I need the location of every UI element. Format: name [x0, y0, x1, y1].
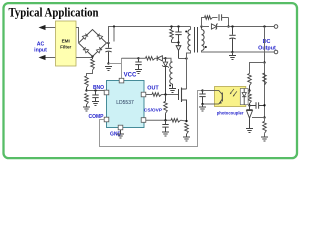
resistor R2 line sense middle — [85, 76, 89, 88]
node C1 bottom / VCC link — [107, 62, 109, 64]
node gate resistor junction — [164, 93, 166, 95]
wire emitter to box — [203, 103, 215, 105]
node primary phase dot — [185, 31, 187, 33]
svg-text:CS/OVP: CS/OVP — [144, 108, 163, 114]
bridge diode D1 (left-top edge) — [82, 34, 88, 40]
transistor U2 TL431 shunt regulator — [249, 106, 251, 110]
resistor R8 LED bias — [248, 74, 252, 86]
svg-text:VCC: VCC — [124, 73, 137, 79]
wire clamp bottom tie — [172, 42, 179, 44]
node TL431 ref junction — [263, 116, 265, 118]
ground below R3 — [83, 106, 90, 108]
resistor R12 OVP series — [165, 95, 167, 102]
zener D6 OVP — [165, 58, 167, 61]
node aux phase dot — [169, 85, 171, 87]
bridge diode D2 (top-right edge) — [97, 34, 103, 40]
photocoupler light arrows — [231, 89, 234, 93]
wire LED cathode to photocoupler — [248, 105, 249, 107]
node clamp C top — [177, 25, 179, 27]
resistor R13 CS series — [171, 119, 181, 123]
svg-text:OUT: OUT — [147, 86, 159, 92]
svg-text:photocoupler: photocoupler — [217, 110, 244, 115]
wire TL431 ref — [252, 117, 265, 119]
node bridge+ riser junction — [107, 42, 109, 44]
node CS filter tap — [164, 119, 166, 121]
wire LED anode to photocoupler — [248, 90, 249, 92]
wire BNO tap to IC pin — [87, 90, 105, 92]
node VCC charge cap tap — [137, 57, 139, 59]
svg-text:Typical Application: Typical Application — [9, 6, 99, 20]
diode D8 output rectifier — [202, 26, 210, 28]
wire output positive rail — [229, 26, 275, 28]
node emitter junction — [201, 103, 203, 105]
bridge rectifier BD1 diamond — [79, 30, 107, 57]
resistor R11 gate — [146, 94, 152, 96]
wire secondary top lead — [201, 27, 203, 30]
ground below photocoupler — [202, 104, 204, 107]
transformer core — [194, 27, 196, 53]
wire feedback column — [264, 27, 266, 118]
pin VCC (top) — [119, 78, 124, 83]
node feedback column top — [263, 25, 265, 27]
svg-text:BNO: BNO — [93, 85, 104, 91]
resistor R14 current sense — [185, 123, 189, 134]
node drain junction — [185, 57, 187, 59]
resistor R5 clamp — [171, 27, 173, 30]
wire EMI bottom output to bridge — [76, 57, 93, 59]
svg-text:Filter: Filter — [60, 45, 71, 50]
wire CS pin — [146, 119, 171, 121]
ground below TL431 — [246, 128, 253, 130]
node secondary snubber right — [227, 25, 229, 27]
ground below aux winding — [169, 88, 176, 90]
diode D5 VCC charge — [155, 57, 157, 59]
svg-text:Output: Output — [258, 46, 276, 52]
node comp cap right — [263, 104, 265, 106]
ground below C2 — [92, 101, 99, 103]
node source sense junction — [185, 120, 187, 122]
resistor R4 VCC charge — [146, 57, 156, 61]
node clamp diode top — [177, 41, 179, 43]
node clamp R top — [170, 25, 172, 27]
wire collector to box — [203, 90, 215, 92]
capacitor C3 VCC — [138, 58, 140, 61]
resistor R3 line sense lower — [85, 94, 89, 105]
node LED anode — [248, 89, 250, 91]
capacitor C5 snubber — [218, 14, 220, 20]
pin BNO (left upper) — [104, 90, 109, 95]
pin COMP (left lower) — [104, 117, 109, 122]
diode D7 clamp — [176, 46, 181, 51]
wire aux top — [166, 58, 172, 62]
ground below R10 — [261, 136, 268, 138]
pin CS/OVP (right lower) — [141, 118, 146, 123]
photocoupler transistor — [221, 93, 223, 102]
resistor R1 line sense upper — [92, 57, 94, 60]
bridge diode D4 (bottom-right edge) — [96, 47, 102, 53]
op-amp U1 LD5537 body — [107, 81, 145, 128]
node BNO filter cap tap — [94, 89, 96, 91]
resistor R9 LED parallel — [248, 93, 252, 104]
capacitor C2 BNO filter — [95, 91, 97, 95]
resistor R7 upper divider — [264, 63, 266, 74]
pin GND (bottom) — [118, 125, 123, 130]
capacitor C7 compensation — [250, 105, 256, 107]
transistor Q1 MOSFET — [178, 89, 180, 100]
ground below C6 — [232, 52, 234, 55]
ground below C9 — [162, 131, 169, 133]
AC line bottom wire with arrow — [45, 57, 56, 59]
green page border — [4, 3, 298, 158]
ground at IC GND pin — [120, 130, 122, 134]
resistor R6 snubber — [202, 18, 205, 27]
node LED cathode — [248, 104, 250, 106]
node output cap top — [231, 25, 233, 27]
inductor T1 secondary winding — [202, 30, 205, 51]
bulk capacitor C1 — [108, 43, 110, 48]
svg-text:DC: DC — [263, 39, 271, 45]
bridge diode D3 (left-bottom edge) — [83, 47, 89, 53]
resistor R10 lower divider — [264, 118, 266, 122]
node output cap bottom — [231, 51, 233, 53]
wire VCC link to IC — [109, 63, 122, 65]
node BNO tap — [85, 89, 87, 91]
terminal DC output positive — [274, 25, 278, 29]
wire secondary bottom lead — [202, 51, 233, 53]
wire bridge positive to riser — [107, 42, 109, 44]
capacitor C4 clamp — [178, 27, 180, 32]
capacitor C6 output — [232, 27, 234, 35]
terminal DC output negative — [274, 50, 278, 54]
svg-text:input: input — [34, 48, 47, 54]
wire aux bottom to ground — [172, 84, 174, 88]
ground below C3 — [135, 69, 142, 71]
ground below C1 — [105, 66, 112, 68]
node aux top junction — [164, 57, 166, 59]
pin OUT (right upper) — [141, 92, 146, 97]
capacitor C9 CS filter — [165, 120, 167, 124]
photocoupler LED — [240, 89, 248, 105]
ground below R14 — [183, 136, 190, 138]
node feedback branch — [263, 61, 265, 63]
wire feedback branch to bias — [250, 63, 265, 74]
node bridge bottom — [91, 55, 93, 57]
wire EMI top output to bridge — [76, 28, 79, 43]
inductor T1 primary winding — [188, 30, 191, 51]
wire output negative rail — [233, 51, 275, 53]
svg-text:LD5537: LD5537 — [116, 100, 134, 106]
wire COMP to photocoupler — [100, 91, 203, 147]
AC line top wire with arrow — [45, 27, 56, 29]
svg-text:EMI: EMI — [62, 39, 70, 44]
wire VCC charge corner — [122, 57, 139, 59]
wire primary bottom to drain — [187, 51, 191, 90]
inductor L1 aux winding — [170, 62, 173, 84]
EMI filter block — [56, 21, 77, 66]
node photocoupler collector — [201, 89, 203, 91]
capacitor C8 comp filter — [202, 91, 204, 94]
riser wire to HV rail — [109, 27, 191, 44]
node secondary snubber left — [200, 25, 202, 27]
node secondary phase dot — [205, 46, 207, 48]
photocoupler U3 box — [215, 87, 246, 107]
node HV rail cap tap — [113, 25, 115, 27]
wire primary top lead — [190, 27, 192, 30]
